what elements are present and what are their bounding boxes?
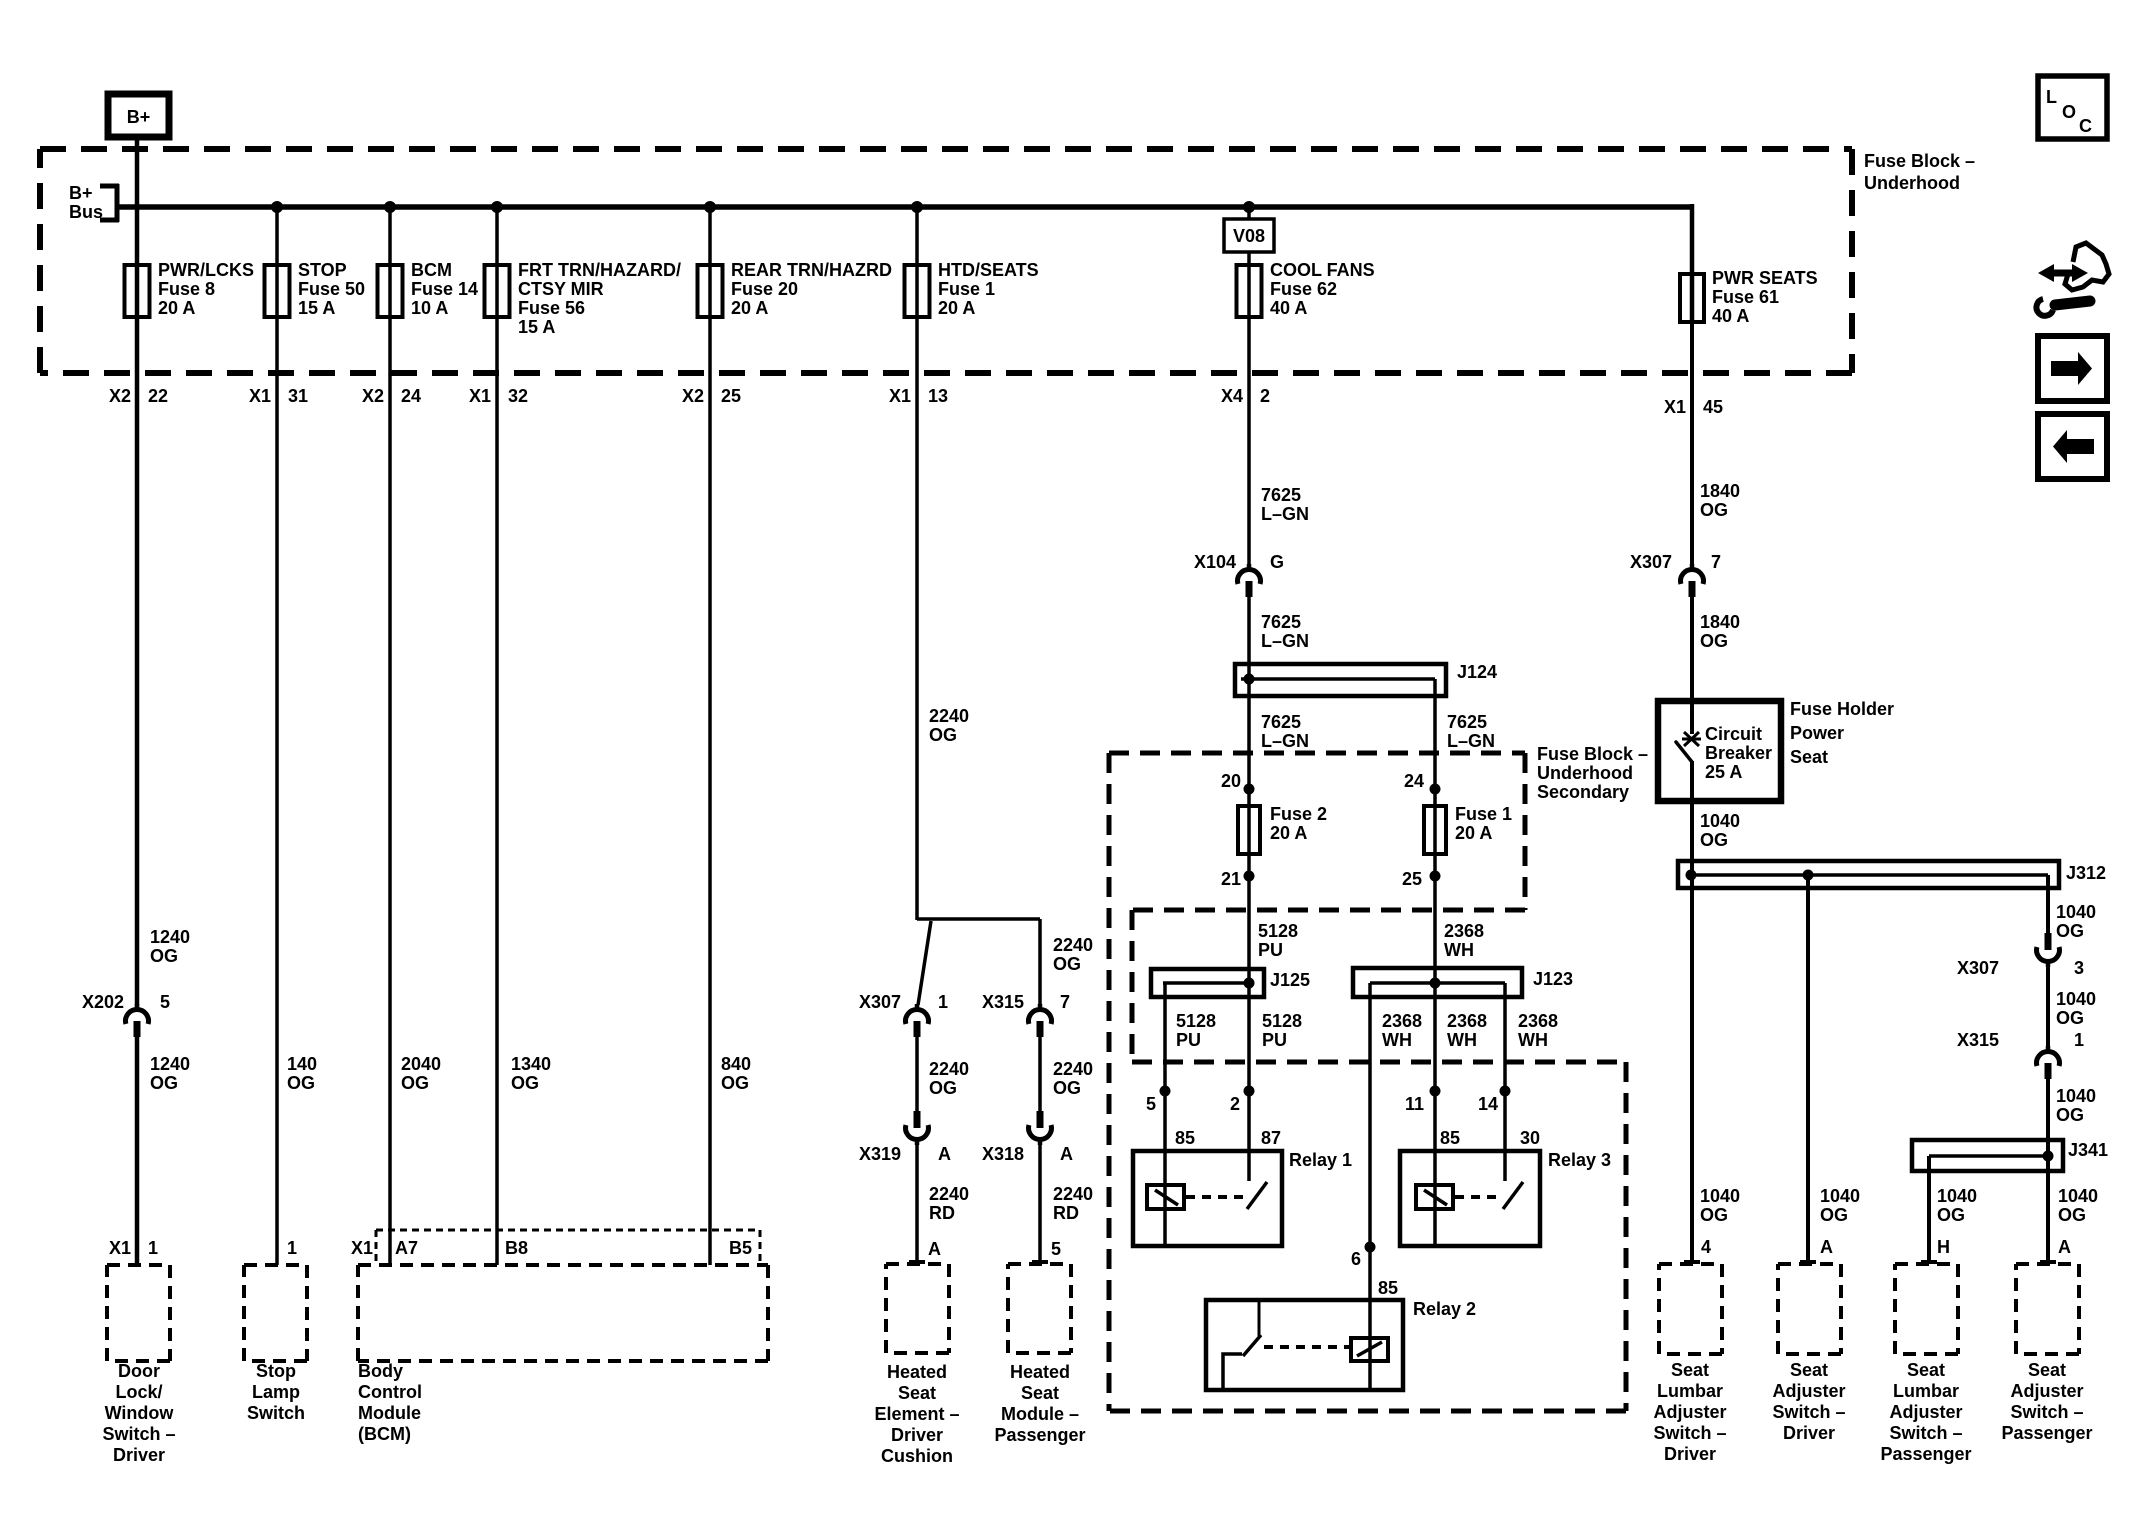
svg-text:Fuse Block –: Fuse Block – — [1537, 744, 1648, 764]
svg-text:7625: 7625 — [1447, 712, 1487, 732]
wire J312 to X307 pin 3 — [2046, 875, 2050, 934]
svg-text:Seat: Seat — [1907, 1360, 1945, 1380]
node pin 20 — [1244, 784, 1255, 795]
svg-text:REAR TRN/HAZRD: REAR TRN/HAZRD — [731, 260, 892, 280]
svg-text:PU: PU — [1176, 1030, 1201, 1050]
svg-text:1040: 1040 — [1700, 1186, 1740, 1206]
node pin 14 — [1500, 1086, 1511, 1097]
svg-text:OG: OG — [2058, 1205, 2086, 1225]
svg-text:Lock/: Lock/ — [115, 1382, 162, 1402]
svg-text:X307: X307 — [1630, 552, 1672, 572]
svg-text:1040: 1040 — [2056, 989, 2096, 1009]
wire J312 to seat adjuster switch driver — [1800, 875, 1816, 1263]
svg-text:Relay 1: Relay 1 — [1289, 1150, 1352, 1170]
svg-text:B+: B+ — [69, 183, 93, 203]
svg-text:Circuit: Circuit — [1705, 724, 1762, 744]
svg-text:2368: 2368 — [1382, 1011, 1422, 1031]
svg-text:Switch –: Switch – — [1653, 1423, 1726, 1443]
svg-text:840: 840 — [721, 1054, 751, 1074]
svg-text:A7: A7 — [395, 1238, 418, 1258]
svg-text:Driver: Driver — [1783, 1423, 1835, 1443]
svg-text:1: 1 — [287, 1238, 297, 1258]
relay 1 actuator dashes — [1186, 1195, 1245, 1199]
node pin 5 — [1160, 1086, 1171, 1097]
svg-text:5: 5 — [160, 992, 170, 1012]
svg-text:OG: OG — [1700, 631, 1728, 651]
svg-text:O: O — [2062, 102, 2076, 122]
svg-text:Body: Body — [358, 1361, 403, 1381]
connector X319 pin A — [914, 1111, 921, 1128]
svg-text:14: 14 — [1478, 1094, 1498, 1114]
svg-text:Module: Module — [358, 1403, 421, 1423]
wire J123 to relay 2 coil — [1368, 983, 1372, 1389]
seat lumbar adjuster switch passenger box — [1895, 1264, 1958, 1354]
svg-text:Lumbar: Lumbar — [1657, 1381, 1723, 1401]
svg-text:25: 25 — [1402, 869, 1422, 889]
wire fuse 8 to X202 — [135, 265, 140, 1006]
node J124 junction — [1244, 674, 1255, 685]
node J341 junction — [2043, 1151, 2054, 1162]
svg-text:31: 31 — [288, 386, 308, 406]
svg-text:X318: X318 — [982, 1144, 1024, 1164]
svg-text:Fuse 14: Fuse 14 — [411, 279, 478, 299]
relay 1 coil — [1147, 1185, 1184, 1209]
connector X202 pin 5 — [135, 1004, 140, 1011]
svg-text:STOP: STOP — [298, 260, 347, 280]
svg-text:L–GN: L–GN — [1261, 731, 1309, 751]
svg-text:40 A: 40 A — [1712, 306, 1749, 326]
svg-text:X307: X307 — [1957, 958, 1999, 978]
B+ power symbol — [108, 94, 169, 137]
node J312 junction left — [1686, 870, 1697, 881]
svg-text:C: C — [2079, 116, 2092, 136]
svg-text:Switch –: Switch – — [102, 1424, 175, 1444]
svg-text:Passenger: Passenger — [994, 1425, 1085, 1445]
svg-text:1040: 1040 — [2058, 1186, 2098, 1206]
svg-text:25: 25 — [721, 386, 741, 406]
svg-text:Lamp: Lamp — [252, 1382, 300, 1402]
fuse F14 BCM body — [378, 265, 403, 317]
svg-text:Fuse 20: Fuse 20 — [731, 279, 798, 299]
svg-text:20: 20 — [1221, 771, 1241, 791]
splice J124 — [1235, 664, 1446, 696]
svg-text:Fuse Block –: Fuse Block – — [1864, 151, 1975, 171]
wire J124 to relay 3 coil via fuse 1 J123 — [1433, 679, 1437, 1244]
svg-text:COOL FANS: COOL FANS — [1270, 260, 1375, 280]
node pin 24 — [1430, 784, 1441, 795]
svg-text:85: 85 — [1440, 1128, 1460, 1148]
svg-text:A: A — [2058, 1237, 2071, 1257]
svg-text:Heated: Heated — [1010, 1362, 1070, 1382]
svg-text:X307: X307 — [859, 992, 901, 1012]
svg-text:5: 5 — [1146, 1094, 1156, 1114]
svg-text:2240: 2240 — [1053, 1184, 1093, 1204]
svg-text:J312: J312 — [2066, 863, 2106, 883]
relay 3 actuator dashes — [1455, 1195, 1500, 1199]
svg-text:Adjuster: Adjuster — [1772, 1381, 1845, 1401]
svg-text:Seat: Seat — [1671, 1360, 1709, 1380]
svg-text:20 A: 20 A — [1270, 823, 1307, 843]
svg-text:(BCM): (BCM) — [358, 1424, 411, 1444]
node pin 25 — [1430, 871, 1441, 882]
bus stub to fuse 62 through V08 — [1247, 207, 1251, 220]
svg-text:15 A: 15 A — [298, 298, 335, 318]
svg-text:X2: X2 — [362, 386, 384, 406]
svg-text:20 A: 20 A — [158, 298, 195, 318]
svg-text:A: A — [938, 1144, 951, 1164]
svg-text:J124: J124 — [1457, 662, 1497, 682]
svg-text:Bus: Bus — [69, 202, 103, 222]
wire J123 to relay 3 pin 30 — [1503, 983, 1507, 1181]
svg-text:1840: 1840 — [1700, 481, 1740, 501]
svg-text:Cushion: Cushion — [881, 1446, 953, 1466]
fuse F8 PWR/LCKS body — [125, 265, 150, 317]
svg-text:1240: 1240 — [150, 927, 190, 947]
circuit breaker box — [1658, 701, 1781, 801]
bus stub to fuse 50 — [275, 207, 279, 317]
B+ bus bar — [117, 204, 1692, 322]
svg-text:15 A: 15 A — [518, 317, 555, 337]
svg-text:OG: OG — [1053, 1078, 1081, 1098]
svg-text:5128: 5128 — [1258, 921, 1298, 941]
node J123 junction — [1430, 978, 1441, 989]
wire B+ feed to fuse 8 — [135, 137, 140, 265]
svg-text:HTD/SEATS: HTD/SEATS — [938, 260, 1039, 280]
svg-text:Heated: Heated — [887, 1362, 947, 1382]
relay 2 box — [1206, 1300, 1403, 1390]
svg-text:3: 3 — [2074, 958, 2084, 978]
svg-text:1040: 1040 — [1937, 1186, 1977, 1206]
svg-text:OG: OG — [2056, 1008, 2084, 1028]
node pin 11 — [1430, 1086, 1441, 1097]
svg-text:1: 1 — [2074, 1030, 2084, 1050]
svg-text:Secondary: Secondary — [1537, 782, 1629, 802]
wire X307 to circuit breaker — [1690, 597, 1694, 734]
svg-text:2240: 2240 — [929, 706, 969, 726]
wire X202 to door lock switch — [135, 1037, 140, 1265]
wire J341 to seat lumbar adjuster switch passenger — [1921, 1156, 1937, 1263]
wire X104 to relay 1 pin 87 via J124 fuse 2 J125 — [1247, 597, 1251, 1181]
svg-text:Element –: Element – — [874, 1404, 959, 1424]
svg-text:5128: 5128 — [1176, 1011, 1216, 1031]
svg-text:X315: X315 — [982, 992, 1024, 1012]
wire jog to X307 — [918, 921, 931, 1005]
splice J125 — [1151, 969, 1264, 997]
wire X319 to heated seat element — [909, 1143, 925, 1263]
stop lamp switch connector box — [244, 1265, 307, 1361]
wire circuit breaker to seat lumbar switch driver — [1684, 761, 1700, 1263]
svg-text:Adjuster: Adjuster — [1889, 1402, 1962, 1422]
svg-text:2040: 2040 — [401, 1054, 441, 1074]
svg-text:B+: B+ — [127, 107, 151, 127]
bus stub to fuse 14 — [388, 207, 392, 317]
node J312 junction mid — [1803, 870, 1814, 881]
svg-text:Power: Power — [1790, 723, 1844, 743]
svg-text:Driver: Driver — [891, 1425, 943, 1445]
svg-text:WH: WH — [1382, 1030, 1412, 1050]
svg-text:OG: OG — [1700, 830, 1728, 850]
V08 callout box — [1224, 219, 1274, 252]
wire fuse 56 to BCM B8 — [495, 317, 499, 1265]
node pin 21 — [1244, 871, 1255, 882]
svg-text:4: 4 — [1701, 1237, 1711, 1257]
svg-text:5: 5 — [1051, 1239, 1061, 1259]
svg-text:FRT TRN/HAZARD/: FRT TRN/HAZARD/ — [518, 260, 681, 280]
relay 3 switch — [1503, 1151, 1523, 1209]
svg-text:Switch: Switch — [247, 1403, 305, 1423]
svg-text:X315: X315 — [1957, 1030, 1999, 1050]
svg-text:A: A — [1820, 1237, 1833, 1257]
svg-text:A: A — [928, 1239, 941, 1259]
node pin 6 — [1365, 1242, 1376, 1253]
svg-text:24: 24 — [1404, 771, 1424, 791]
node J125 junction — [1244, 978, 1255, 989]
svg-text:X2: X2 — [682, 386, 704, 406]
svg-text:1040: 1040 — [2056, 1086, 2096, 1106]
wire branch to X315 — [917, 917, 1040, 921]
relay 1 switch — [1247, 1151, 1267, 1209]
back arrow box — [2038, 414, 2107, 479]
wire fuse 20 to BCM B5 — [708, 317, 712, 1265]
B+ bus bracket — [100, 184, 119, 222]
svg-text:2: 2 — [1260, 386, 1270, 406]
svg-text:Seat: Seat — [898, 1383, 936, 1403]
svg-text:1: 1 — [938, 992, 948, 1012]
svg-text:45: 45 — [1703, 397, 1723, 417]
svg-text:PWR/LCKS: PWR/LCKS — [158, 260, 254, 280]
svg-text:Switch –: Switch – — [1772, 1402, 1845, 1422]
relay dashed enclosure — [1109, 1062, 1626, 1411]
svg-text:Lumbar: Lumbar — [1893, 1381, 1959, 1401]
svg-text:Underhood: Underhood — [1864, 173, 1960, 193]
svg-text:85: 85 — [1378, 1278, 1398, 1298]
svg-text:Driver: Driver — [1664, 1444, 1716, 1464]
svg-text:WH: WH — [1444, 940, 1474, 960]
svg-text:PWR SEATS: PWR SEATS — [1712, 268, 1818, 288]
secondary fuse 2 body — [1238, 806, 1260, 854]
bus junction nodes — [271, 201, 1255, 213]
svg-text:Underhood: Underhood — [1537, 763, 1633, 783]
svg-text:Fuse 61: Fuse 61 — [1712, 287, 1779, 307]
wire fuse 61 to X307 — [1690, 322, 1694, 566]
svg-text:87: 87 — [1261, 1128, 1281, 1148]
svg-text:24: 24 — [401, 386, 421, 406]
svg-text:10 A: 10 A — [411, 298, 448, 318]
svg-text:L–GN: L–GN — [1261, 631, 1309, 651]
svg-text:Passenger: Passenger — [2001, 1423, 2092, 1443]
wrench navigation icon — [2036, 243, 2109, 316]
svg-text:Fuse 1: Fuse 1 — [1455, 804, 1512, 824]
connector X318 pin A — [1037, 1111, 1044, 1128]
splice J341 — [1912, 1140, 2063, 1171]
svg-text:RD: RD — [1053, 1203, 1079, 1223]
relay 1 box — [1133, 1151, 1282, 1246]
svg-text:Module –: Module – — [1001, 1404, 1079, 1424]
svg-text:X2: X2 — [109, 386, 131, 406]
svg-text:32: 32 — [508, 386, 528, 406]
seat lumbar adjuster switch driver box — [1659, 1264, 1722, 1354]
svg-text:2368: 2368 — [1518, 1011, 1558, 1031]
svg-text:X202: X202 — [82, 992, 124, 1012]
svg-text:1: 1 — [148, 1238, 158, 1258]
svg-text:X1: X1 — [109, 1238, 131, 1258]
svg-text:Switch –: Switch – — [1889, 1423, 1962, 1443]
fuse F61 PWR SEATS body — [1680, 274, 1704, 322]
wire fuse 1 HTD/SEATS down — [915, 317, 919, 920]
svg-text:Stop: Stop — [256, 1361, 296, 1381]
svg-text:Fuse Holder: Fuse Holder — [1790, 699, 1894, 719]
svg-text:OG: OG — [1700, 500, 1728, 520]
fuse block underhood dashed enclosure — [40, 149, 1852, 373]
svg-text:21: 21 — [1221, 869, 1241, 889]
svg-text:2240: 2240 — [929, 1059, 969, 1079]
svg-text:X1: X1 — [351, 1238, 373, 1258]
svg-text:1040: 1040 — [1820, 1186, 1860, 1206]
wire fuse 14 to BCM A7 — [388, 317, 392, 1265]
svg-text:Relay 3: Relay 3 — [1548, 1150, 1611, 1170]
svg-text:G: G — [1270, 552, 1284, 572]
svg-text:CTSY MIR: CTSY MIR — [518, 279, 604, 299]
svg-text:J123: J123 — [1533, 969, 1573, 989]
svg-text:OG: OG — [929, 1078, 957, 1098]
wire X307 to X319 — [915, 1037, 919, 1112]
svg-text:7625: 7625 — [1261, 612, 1301, 632]
svg-text:Door: Door — [118, 1361, 160, 1381]
fuse F56 FRT TRN body — [485, 265, 510, 317]
svg-text:Seat: Seat — [1021, 1383, 1059, 1403]
svg-text:Seat: Seat — [1790, 1360, 1828, 1380]
connector X315 pin 1 — [2046, 1046, 2051, 1053]
svg-text:Fuse 1: Fuse 1 — [938, 279, 995, 299]
svg-text:Breaker: Breaker — [1705, 743, 1772, 763]
svg-text:L–GN: L–GN — [1261, 504, 1309, 524]
svg-text:OG: OG — [150, 1073, 178, 1093]
wire fuse 62 to X104 — [1247, 251, 1251, 566]
svg-text:2240: 2240 — [929, 1184, 969, 1204]
wire X315 to X318 — [1038, 919, 1042, 1112]
svg-text:20 A: 20 A — [1455, 823, 1492, 843]
wire X315 to seat adjuster switch passenger via J341 — [2040, 1079, 2056, 1263]
svg-text:X1: X1 — [469, 386, 491, 406]
node pin 2 — [1244, 1086, 1255, 1097]
circuit breaker symbol — [1676, 701, 1701, 762]
svg-text:1240: 1240 — [150, 1054, 190, 1074]
svg-text:30: 30 — [1520, 1128, 1540, 1148]
fuse F50 STOP body — [265, 265, 290, 317]
svg-text:BCM: BCM — [411, 260, 452, 280]
heated seat module passenger box — [1008, 1264, 1071, 1353]
svg-text:7: 7 — [1060, 992, 1070, 1012]
svg-text:OG: OG — [1937, 1205, 1965, 1225]
svg-text:Adjuster: Adjuster — [1653, 1402, 1726, 1422]
svg-text:X319: X319 — [859, 1144, 901, 1164]
seat adjuster switch passenger box — [2016, 1264, 2079, 1354]
LOC box — [2038, 76, 2107, 139]
svg-text:2368: 2368 — [1444, 921, 1484, 941]
svg-text:20 A: 20 A — [938, 298, 975, 318]
svg-text:1840: 1840 — [1700, 612, 1740, 632]
svg-text:Passenger: Passenger — [1880, 1444, 1971, 1464]
svg-text:Fuse 56: Fuse 56 — [518, 298, 585, 318]
svg-text:20 A: 20 A — [731, 298, 768, 318]
fuse F62 COOL FANS body — [1237, 265, 1262, 317]
connector X307 pin 7 — [1690, 564, 1695, 571]
svg-text:11: 11 — [1405, 1094, 1424, 1114]
svg-text:2240: 2240 — [1053, 1059, 1093, 1079]
wire J125 to relay 1 coil — [1163, 983, 1167, 1244]
svg-text:RD: RD — [929, 1203, 955, 1223]
relay 2 actuator dashes — [1264, 1345, 1349, 1349]
svg-text:2: 2 — [1230, 1094, 1240, 1114]
svg-text:1040: 1040 — [1700, 811, 1740, 831]
svg-text:6: 6 — [1351, 1249, 1361, 1269]
svg-text:7625: 7625 — [1261, 485, 1301, 505]
svg-text:B8: B8 — [505, 1238, 528, 1258]
svg-text:Switch –: Switch – — [2010, 1402, 2083, 1422]
svg-text:2240: 2240 — [1053, 935, 1093, 955]
svg-text:Relay 2: Relay 2 — [1413, 1299, 1476, 1319]
svg-text:Adjuster: Adjuster — [2010, 1381, 2083, 1401]
svg-text:Seat: Seat — [1790, 747, 1828, 767]
fuse F20 REAR TRN body — [698, 265, 723, 317]
relay 3 coil — [1416, 1185, 1453, 1209]
wire X307 to X315 right — [2046, 964, 2050, 1048]
connector X307 pin 3 — [2045, 933, 2052, 950]
wire fuse 50 to stop lamp switch — [275, 317, 279, 1265]
svg-text:A: A — [1060, 1144, 1073, 1164]
svg-text:Fuse 50: Fuse 50 — [298, 279, 365, 299]
svg-text:Window: Window — [105, 1403, 175, 1423]
BCM X1 connector dotted strip — [376, 1230, 760, 1263]
svg-text:7: 7 — [1711, 552, 1721, 572]
svg-text:Seat: Seat — [2028, 1360, 2066, 1380]
svg-text:OG: OG — [1053, 954, 1081, 974]
svg-text:J341: J341 — [2068, 1140, 2108, 1160]
svg-text:13: 13 — [928, 386, 948, 406]
forward arrow box — [2038, 336, 2107, 401]
svg-text:J125: J125 — [1270, 970, 1310, 990]
svg-text:WH: WH — [1518, 1030, 1548, 1050]
svg-text:X1: X1 — [1664, 397, 1686, 417]
svg-text:OG: OG — [929, 725, 957, 745]
splice J123 — [1353, 968, 1522, 997]
wire X318 to heated seat module — [1032, 1143, 1048, 1263]
svg-text:OG: OG — [2056, 1105, 2084, 1125]
svg-text:Fuse 2: Fuse 2 — [1270, 804, 1327, 824]
svg-text:25 A: 25 A — [1705, 762, 1742, 782]
svg-text:OG: OG — [287, 1073, 315, 1093]
svg-text:OG: OG — [1700, 1205, 1728, 1225]
svg-text:X1: X1 — [889, 386, 911, 406]
svg-text:PU: PU — [1258, 940, 1283, 960]
connector X315 pin 7 — [1038, 1004, 1043, 1011]
body control module box — [358, 1265, 768, 1361]
relay 3 box — [1400, 1151, 1540, 1246]
svg-text:OG: OG — [721, 1073, 749, 1093]
svg-text:22: 22 — [148, 386, 168, 406]
svg-text:L–GN: L–GN — [1447, 731, 1495, 751]
svg-text:WH: WH — [1447, 1030, 1477, 1050]
svg-text:2368: 2368 — [1447, 1011, 1487, 1031]
connector X307 pin 1 — [915, 1004, 920, 1011]
svg-text:PU: PU — [1262, 1030, 1287, 1050]
svg-text:Driver: Driver — [113, 1445, 165, 1465]
svg-text:X104: X104 — [1194, 552, 1236, 572]
svg-text:OG: OG — [401, 1073, 429, 1093]
svg-text:OG: OG — [1820, 1205, 1848, 1225]
svg-text:OG: OG — [511, 1073, 539, 1093]
fuse F1 HTD/SEATS body — [905, 265, 930, 317]
